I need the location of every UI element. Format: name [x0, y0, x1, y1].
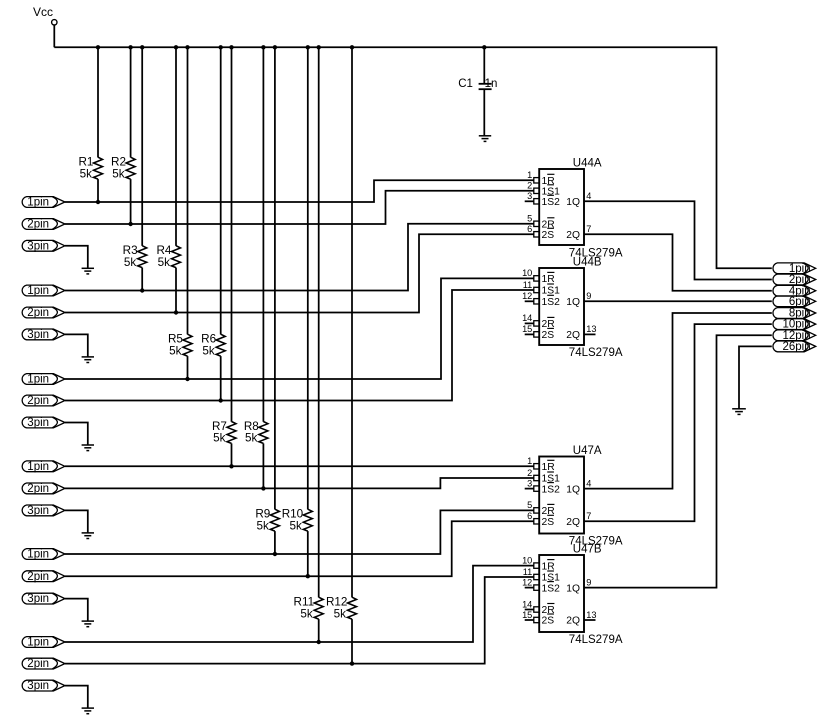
svg-text:3pin: 3pin: [27, 240, 49, 252]
resistor R9 5k pull-up: [255, 508, 279, 533]
svg-text:13: 13: [586, 610, 596, 620]
wire U47A pin 7 (2Q) to right connector 10pin: [584, 324, 772, 521]
svg-text:5k: 5k: [169, 344, 182, 357]
resistor R3 5k pull-up: [123, 244, 147, 269]
wire R5 to input net: [187, 356, 189, 379]
connector flag 2pin right header: [773, 274, 816, 286]
pin 13 (2Q output) of U44B: [566, 324, 596, 341]
wire Vcc bus to R3: [141, 47, 143, 246]
resistor R5 5k pull-up: [168, 333, 192, 358]
wire R4 to input net: [175, 268, 177, 313]
pin 13 (2Q output) of U47B: [566, 610, 596, 627]
wire Vcc bus to R4: [175, 47, 177, 246]
connector flag 2pin wire 2pin group6 to U47B pin 11: [22, 658, 65, 670]
svg-text:14: 14: [522, 599, 532, 609]
svg-text:1pin: 1pin: [27, 285, 49, 297]
wire 2pin group1 to U44A pin 2: [65, 191, 534, 224]
svg-text:2pin: 2pin: [27, 307, 49, 319]
junction R1 column on Vcc bus: [96, 45, 100, 49]
capacitor C1 value 1n: [458, 78, 497, 90]
svg-text:1S2: 1S2: [542, 583, 561, 594]
wire Vcc bus to R9: [274, 47, 276, 509]
svg-text:3pin: 3pin: [27, 505, 49, 517]
junction R6 on input net: [219, 398, 223, 402]
wire R10 to input net: [307, 531, 309, 576]
svg-text:C1: C1: [458, 78, 473, 90]
ground group5 3pin: [82, 620, 94, 622]
resistor R2 5k pull-up: [111, 156, 135, 181]
wire 1pin group6 to U47B pin 10: [65, 566, 534, 642]
connector flag 8pin right header: [773, 308, 816, 320]
connector flag 1pin wire 1pin group1 to U44A pin 1: [22, 197, 65, 209]
svg-text:1pin: 1pin: [27, 197, 49, 209]
svg-text:74LS279A: 74LS279A: [569, 347, 623, 359]
junction R7 column on Vcc bus: [229, 45, 233, 49]
svg-text:1R: 1R: [542, 462, 555, 473]
wire Vcc bus to R8: [262, 47, 264, 421]
connector flag 1pin wire 1pin group6 to U47B pin 10: [22, 637, 65, 649]
svg-text:4: 4: [586, 478, 591, 488]
pin 2 (1S1) of U44A: [527, 181, 560, 198]
junction R8 column on Vcc bus: [261, 45, 265, 49]
pin 3 (1S2) of U47A: [525, 478, 560, 495]
pin 14 (2R) of U47B: [522, 599, 555, 616]
wire R8 to input net: [262, 443, 264, 488]
svg-text:12: 12: [522, 577, 532, 587]
wire Vcc bus to R12: [351, 47, 353, 597]
op IC U47A 74LS279A quad SR latch: [539, 445, 623, 547]
svg-text:13: 13: [586, 324, 596, 334]
svg-text:U44B: U44B: [573, 257, 602, 269]
wire U47A pin 4 (1Q) to right connector 8pin: [584, 313, 772, 489]
wire 1pin group4 to U47A pin 1: [65, 465, 534, 467]
wire 3pin group1 to ground: [65, 246, 88, 268]
svg-text:7: 7: [586, 224, 591, 234]
wire U44B pin 9 (1Q) to right connector 6pin: [584, 300, 772, 302]
svg-text:2pin: 2pin: [27, 658, 49, 670]
wire 1pin group5 to U47A pin 5: [65, 510, 534, 554]
connector flag 3pin group4: [22, 505, 65, 517]
junction R12 on input net: [350, 661, 354, 665]
svg-text:3pin: 3pin: [27, 417, 49, 429]
svg-text:1Q: 1Q: [566, 197, 580, 208]
resistor R1 5k pull-up: [78, 156, 102, 181]
pin 15 (2S) of U47B: [522, 610, 554, 627]
pin 14 (2R) of U44B: [522, 313, 555, 330]
svg-text:2Q: 2Q: [566, 616, 580, 627]
wire R7 to input net: [231, 443, 233, 466]
connector flag 3pin group1: [22, 240, 65, 252]
junction R8 on input net: [261, 486, 265, 490]
svg-text:1S2: 1S2: [542, 197, 561, 208]
connector flag 2pin wire 2pin group3 to U44B pin 11: [22, 395, 65, 407]
svg-text:6: 6: [527, 511, 532, 521]
wire 3pin group6 to ground: [65, 686, 88, 709]
junction R4 column on Vcc bus: [174, 45, 178, 49]
svg-text:10pin: 10pin: [782, 319, 810, 331]
resistor R7 5k pull-up: [212, 420, 236, 445]
wire 2pin group5 to U47A pin 6: [65, 521, 534, 576]
svg-text:2S: 2S: [542, 330, 555, 341]
svg-text:2: 2: [527, 468, 532, 478]
connector flag 2pin wire 2pin group2 to U44A pin 6: [22, 307, 65, 319]
wire 3pin group4 to ground: [65, 510, 88, 533]
svg-text:3: 3: [527, 478, 532, 488]
svg-text:1pin: 1pin: [27, 461, 49, 473]
junction C1 on Vcc bus: [482, 45, 486, 49]
junction R6 column on Vcc bus: [219, 45, 223, 49]
junction R12 column on Vcc bus: [350, 45, 354, 49]
svg-text:5k: 5k: [334, 607, 347, 620]
svg-text:5k: 5k: [112, 167, 125, 180]
connector flag 1pin wire 1pin group4 to U47A pin 1: [22, 461, 65, 473]
connector flag 6pin right header: [773, 296, 816, 308]
connector flag 26pin right header: [773, 341, 816, 353]
svg-text:5k: 5k: [213, 432, 226, 445]
pin 5 (2R) of U44A: [527, 214, 554, 231]
svg-text:5: 5: [527, 500, 532, 510]
junction R11 on input net: [317, 640, 321, 644]
connector flag 3pin group2: [22, 329, 65, 341]
connector flag 3pin group5: [22, 593, 65, 605]
svg-text:2pin: 2pin: [27, 571, 49, 583]
wire R3 to input net: [141, 268, 143, 291]
junction R7 on input net: [229, 464, 233, 468]
svg-text:6: 6: [527, 224, 532, 234]
svg-text:9: 9: [586, 577, 591, 587]
pin 4 (1Q output) of U44A: [566, 191, 591, 208]
svg-text:10: 10: [522, 268, 532, 278]
svg-text:26pin: 26pin: [782, 341, 810, 353]
svg-text:1pin: 1pin: [27, 637, 49, 649]
connector flag 1pin wire 1pin group2 to U44A pin 5: [22, 285, 65, 297]
pin 12 (1S2) of U47B: [522, 577, 560, 594]
svg-text:2Q: 2Q: [566, 330, 580, 341]
svg-text:3pin: 3pin: [27, 329, 49, 341]
connector flag 2pin wire 2pin group4 to U47A pin 2: [22, 483, 65, 495]
resistor R6 5k pull-up: [201, 333, 225, 358]
op IC U44A 74LS279A quad SR latch: [539, 158, 623, 260]
wire Vcc bus to R5: [187, 47, 189, 334]
pin 2 (1S1) of U47A: [527, 468, 560, 485]
pin 9 (1Q output) of U44B: [566, 291, 591, 308]
svg-text:5k: 5k: [158, 256, 171, 269]
pin 10 (1R) of U47B: [522, 555, 555, 572]
connector flag 12pin right header: [773, 330, 816, 342]
ground group1 3pin: [82, 267, 94, 269]
svg-text:3pin: 3pin: [27, 593, 49, 605]
svg-text:5k: 5k: [300, 607, 313, 620]
junction R10 on input net: [306, 574, 310, 578]
wire 3pin group2 to ground: [65, 334, 88, 357]
wire Vcc bus to R7: [231, 47, 233, 421]
wire R1 to input net: [97, 179, 99, 202]
svg-text:Vcc: Vcc: [33, 5, 53, 19]
wire R2 to input net: [130, 179, 132, 224]
pin 4 (1Q output) of U47A: [566, 478, 591, 495]
svg-text:11: 11: [523, 567, 533, 577]
svg-text:12: 12: [522, 291, 532, 301]
pin 9 (1Q output) of U47B: [566, 577, 591, 594]
svg-text:1: 1: [527, 170, 532, 180]
wire R6 to input net: [220, 356, 222, 400]
ground below C1: [479, 135, 491, 137]
wire U44A pin 4 (1Q) to right connector 2pin: [584, 201, 772, 279]
svg-text:U44A: U44A: [573, 158, 602, 170]
connector flag 1pin wire 1pin group5 to U47A pin 5: [22, 549, 65, 561]
wire R9 to input net: [274, 531, 276, 554]
ground at right connector 26pin: [732, 408, 746, 410]
svg-text:5k: 5k: [289, 519, 302, 532]
svg-text:2Q: 2Q: [566, 517, 580, 528]
svg-text:U47B: U47B: [573, 544, 602, 556]
pin 7 (2Q output) of U44A: [566, 224, 591, 241]
wire Vcc bus to R11: [318, 47, 320, 597]
wire 2pin group4 to U47A pin 2: [65, 478, 534, 488]
svg-text:1pin: 1pin: [27, 549, 49, 561]
svg-text:2S: 2S: [542, 517, 555, 528]
svg-text:5k: 5k: [245, 432, 258, 445]
wire 2pin group6 to U47B pin 11: [65, 577, 534, 664]
svg-text:2pin: 2pin: [27, 483, 49, 495]
svg-text:2pin: 2pin: [789, 274, 811, 286]
resistor R8 5k pull-up: [244, 420, 268, 445]
pin 7 (2Q output) of U47A: [566, 511, 591, 528]
pin 15 (2S) of U44B: [522, 324, 554, 341]
wire 1pin group2 to U44A pin 5: [65, 224, 534, 291]
resistor R11 5k pull-up: [294, 596, 324, 621]
pin 6 (2S) of U44A: [527, 224, 554, 241]
wire right connector 26pin to ground: [739, 346, 772, 408]
ground group2 3pin: [82, 356, 94, 358]
junction R2 column on Vcc bus: [128, 45, 132, 49]
svg-text:10: 10: [522, 555, 532, 565]
svg-text:1Q: 1Q: [566, 297, 580, 308]
connector flag 2pin wire 2pin group1 to U44A pin 2: [22, 219, 65, 231]
svg-text:2S: 2S: [542, 616, 555, 627]
wire U44A pin 7 (2Q) to right connector 4pin: [584, 234, 772, 290]
wire Vcc bus to R10: [307, 47, 309, 509]
connector flag 3pin group6: [22, 680, 65, 692]
connector flag 2pin wire 2pin group5 to U47A pin 6: [22, 571, 65, 583]
wire Vcc bus to R6: [220, 47, 222, 334]
connector flag 1pin wire 1pin group3 to U44B pin 10: [22, 374, 65, 386]
svg-text:4: 4: [586, 191, 591, 201]
pin 12 (1S2) of U44B: [522, 291, 560, 308]
wire 1pin group1 to U44A pin 1: [65, 180, 534, 202]
svg-text:15: 15: [522, 324, 532, 334]
wire 2pin group3 to U44B pin 11: [65, 290, 534, 401]
svg-text:9: 9: [586, 291, 591, 301]
junction R2 on input net: [128, 222, 132, 226]
ground group6 3pin: [82, 707, 94, 709]
pin 10 (1R) of U44B: [522, 268, 555, 285]
svg-text:6pin: 6pin: [789, 296, 811, 308]
wire Vcc bus to R2: [130, 47, 132, 157]
svg-text:2Q: 2Q: [566, 230, 580, 241]
pin 1 (1R) of U44A: [527, 170, 554, 187]
svg-text:2: 2: [527, 181, 532, 191]
svg-text:2pin: 2pin: [27, 219, 49, 231]
wire Vcc bus to R1: [97, 47, 99, 157]
svg-text:14: 14: [522, 313, 532, 323]
pin 6 (2S) of U47A: [527, 511, 554, 528]
junction R3 on input net: [140, 288, 144, 292]
svg-text:1pin: 1pin: [789, 263, 811, 275]
svg-text:15: 15: [522, 610, 532, 620]
wire R12 to input net: [351, 619, 353, 664]
connector flag 4pin right header: [773, 285, 816, 297]
junction R9 column on Vcc bus: [273, 45, 277, 49]
svg-text:1Q: 1Q: [566, 583, 580, 594]
pin 11 (1S1) of U44B: [523, 280, 560, 297]
svg-text:3pin: 3pin: [27, 680, 49, 692]
svg-text:5k: 5k: [202, 344, 215, 357]
pin 1 (1R) of U47A: [527, 456, 554, 473]
connector flag 10pin right header: [773, 319, 816, 331]
junction R10 column on Vcc bus: [306, 45, 310, 49]
svg-text:11: 11: [523, 280, 533, 290]
wire 3pin group5 to ground: [65, 599, 88, 622]
wire Vcc bus from Vcc symbol across top, down right side to connector 1pin: [54, 47, 772, 268]
svg-text:1S2: 1S2: [542, 484, 561, 495]
svg-text:5k: 5k: [80, 167, 93, 180]
svg-text:1: 1: [527, 456, 532, 466]
svg-text:1pin: 1pin: [27, 374, 49, 386]
svg-text:5: 5: [527, 214, 532, 224]
svg-text:1Q: 1Q: [566, 484, 580, 495]
junction R5 on input net: [185, 377, 189, 381]
wire 3pin group3 to ground: [65, 423, 88, 446]
svg-text:2S: 2S: [542, 230, 555, 241]
svg-text:3: 3: [527, 191, 532, 201]
power symbol Vcc: [33, 5, 57, 48]
op IC U47B 74LS279A quad SR latch: [539, 544, 623, 647]
junction R1 on input net: [96, 200, 100, 204]
pin 5 (2R) of U47A: [527, 500, 554, 517]
pin 11 (1S1) of U47B: [523, 567, 560, 584]
svg-text:1S2: 1S2: [542, 297, 561, 308]
pin 3 (1S2) of U44A: [525, 191, 560, 208]
wire U47B pin 9 (1Q) to right connector 12pin: [584, 335, 772, 587]
junction R11 column on Vcc bus: [317, 45, 321, 49]
wire Vcc bus to C1: [483, 47, 485, 83]
junction R4 on input net: [174, 310, 178, 314]
junction R3 column on Vcc bus: [140, 45, 144, 49]
ground group4 3pin: [82, 532, 94, 534]
wire C1 to ground: [483, 89, 485, 136]
wire 2pin group2 to U44A pin 6: [65, 234, 534, 312]
svg-text:2pin: 2pin: [27, 395, 49, 407]
junction R9 on input net: [273, 552, 277, 556]
wire R11 to input net: [318, 619, 320, 642]
svg-text:5k: 5k: [124, 256, 137, 269]
svg-text:7: 7: [586, 511, 591, 521]
resistor R10 5k pull-up: [282, 508, 313, 533]
junction R5 column on Vcc bus: [185, 45, 189, 49]
resistor R4 5k pull-up: [156, 244, 180, 269]
connector flag 3pin group3: [22, 417, 65, 429]
op IC U44B 74LS279A quad SR latch: [539, 257, 623, 360]
svg-text:74LS279A: 74LS279A: [569, 634, 623, 646]
svg-text:U47A: U47A: [573, 445, 602, 457]
svg-text:5k: 5k: [257, 519, 270, 532]
wire 1pin group3 to U44B pin 10: [65, 278, 534, 379]
svg-text:1n: 1n: [485, 78, 498, 90]
ground group3 3pin: [82, 444, 94, 446]
connector flag 1pin right header: [773, 263, 816, 275]
resistor R12 5k pull-up: [326, 596, 357, 621]
